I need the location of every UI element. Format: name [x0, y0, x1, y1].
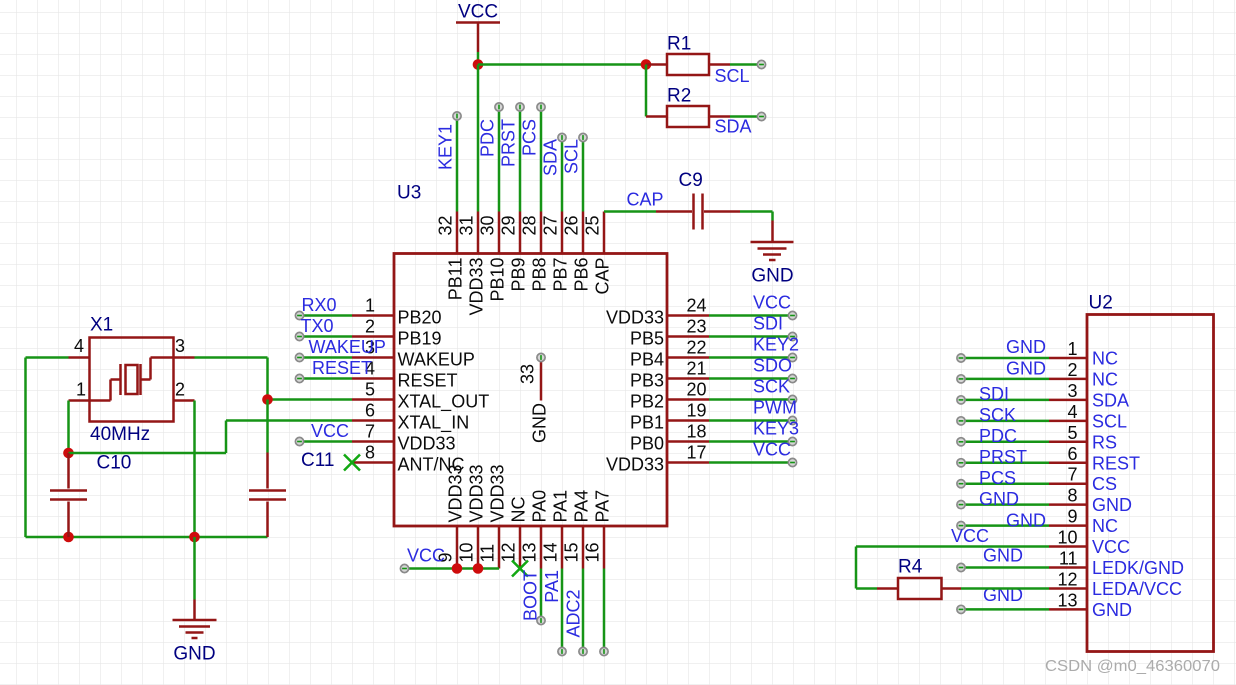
svg-text:15: 15 [562, 542, 582, 562]
pin endpoint KEY3 [788, 437, 796, 445]
junction at R1/R2 split [641, 59, 652, 70]
svg-text:SDA: SDA [715, 117, 752, 137]
svg-text:VDD33: VDD33 [398, 434, 456, 454]
svg-text:8: 8 [1067, 486, 1077, 506]
pin endpoint RESET [295, 374, 303, 382]
svg-text:R4: R4 [898, 557, 923, 578]
wire PA1 (pin14) [561, 569, 564, 652]
svg-text:3: 3 [1067, 381, 1077, 401]
ground symbol (left) [173, 600, 217, 665]
pin endpoint 33 [537, 353, 545, 361]
wire U2 pin 7 (PCS) [961, 482, 1049, 485]
wire R4 to U2 pin 12 [961, 587, 1049, 590]
svg-text:REST: REST [1092, 453, 1140, 473]
wire VCC [709, 461, 793, 464]
svg-text:PRST: PRST [979, 447, 1027, 467]
svg-text:RESET: RESET [398, 371, 458, 391]
pin endpoint BOOT [537, 616, 545, 624]
U2 pin 4 stub [1049, 420, 1087, 423]
svg-text:U2: U2 [1089, 293, 1113, 314]
svg-text:VCC: VCC [951, 526, 989, 546]
U3 right pin 17 stub [667, 461, 709, 464]
svg-text:VCC: VCC [1092, 537, 1130, 557]
svg-text:4: 4 [1067, 402, 1077, 422]
U3 top pin 26 stub [582, 212, 585, 254]
wire R1 to pin SCL [730, 63, 759, 66]
svg-text:TX0: TX0 [301, 316, 334, 336]
svg-text:2: 2 [175, 380, 185, 400]
pin endpoint U2 pin 13 [957, 605, 965, 613]
U2 pin 3 stub [1049, 399, 1087, 402]
U3 bottom pin 15 stub [582, 526, 585, 569]
svg-text:PB10: PB10 [488, 258, 508, 302]
wire U2 pin 9 (GND) [961, 524, 1049, 527]
svg-text:VCC: VCC [753, 440, 791, 460]
svg-text:2: 2 [1067, 360, 1077, 380]
svg-text:GND: GND [173, 644, 215, 665]
svg-text:GND: GND [1092, 600, 1132, 620]
op-amp U3 body [394, 254, 667, 527]
pin endpoint U2 pin 6 [957, 459, 965, 467]
pin endpoint U2 pin 2 [957, 375, 965, 383]
svg-text:22: 22 [687, 338, 707, 358]
svg-text:PB6: PB6 [572, 258, 592, 292]
wire U2 pin 13 (GND) [961, 608, 1049, 611]
svg-text:WAKEUP: WAKEUP [309, 337, 386, 357]
U3 top pin 28 stub [540, 212, 543, 254]
svg-text:19: 19 [687, 401, 707, 421]
U2 pin 6 stub [1049, 462, 1087, 465]
wire U2 pin 6 (PRST) [961, 462, 1049, 465]
pin endpoint SDO [788, 374, 796, 382]
U3 top pin 29 stub [519, 212, 522, 254]
wire U2 pin 5 (PDC) [961, 441, 1049, 444]
pin endpoint PCS [537, 103, 545, 111]
svg-text:XTAL_IN: XTAL_IN [398, 413, 470, 434]
U3 pin 5 stub [352, 398, 394, 401]
svg-text:VCC: VCC [407, 546, 445, 566]
svg-text:U3: U3 [397, 183, 421, 204]
pin endpoint ADC2 [579, 647, 587, 655]
wire X1 pin3 right [195, 356, 268, 359]
pin endpoint PDC [495, 103, 503, 111]
U3 pin 6 stub [352, 419, 394, 422]
svg-text:PB20: PB20 [398, 308, 442, 328]
svg-text:NC: NC [1092, 349, 1118, 369]
junction C10 top [63, 448, 74, 459]
U2 pin 10 stub [1049, 545, 1087, 548]
svg-text:PA4: PA4 [572, 490, 592, 523]
connector U2 body [1087, 315, 1214, 652]
svg-text:7: 7 [1067, 465, 1077, 485]
U2 pin 2 stub [1049, 378, 1087, 381]
svg-text:PA0: PA0 [530, 490, 550, 523]
wire VCC horizontal to R1 [478, 63, 646, 66]
wire SDO [709, 377, 793, 380]
svg-text:GND: GND [1006, 337, 1046, 357]
crystal X1 body [90, 338, 174, 422]
junction XTAL_OUT/C11 [262, 394, 273, 405]
svg-text:21: 21 [687, 359, 707, 379]
svg-text:SCK: SCK [979, 405, 1016, 425]
svg-text:40MHz: 40MHz [90, 424, 150, 445]
svg-text:31: 31 [457, 216, 477, 236]
svg-text:GND: GND [530, 403, 550, 443]
svg-text:PB19: PB19 [398, 329, 442, 349]
svg-text:PA7: PA7 [593, 490, 613, 523]
svg-text:BOOT: BOOT [521, 570, 541, 621]
svg-text:23: 23 [687, 317, 707, 337]
svg-text:PDC: PDC [478, 119, 498, 157]
wire BOOT (pin13) [540, 569, 543, 621]
capacitor C9 [656, 194, 740, 230]
U3 pin 4 stub [352, 377, 394, 380]
svg-text:16: 16 [583, 542, 603, 562]
U3 right pin 19 stub [667, 419, 709, 422]
wire GND drop [193, 537, 196, 600]
U2 pin 1 stub [1049, 357, 1087, 360]
svg-text:GND: GND [751, 266, 793, 287]
svg-text:GND: GND [979, 489, 1019, 509]
wire U2 pin 11 (GND) [961, 566, 1049, 569]
wire TX0 [300, 335, 353, 338]
U3 pin 3 stub [352, 356, 394, 359]
junction pin9 [452, 563, 463, 574]
svg-text:8: 8 [365, 443, 375, 463]
pin endpoint VCC [788, 311, 796, 319]
svg-text:14: 14 [541, 542, 561, 562]
wire KEY3 [709, 440, 793, 443]
U3 bottom pin 10 stub [477, 526, 480, 569]
pin endpoint VCC [788, 458, 796, 466]
svg-text:13: 13 [1057, 590, 1077, 610]
svg-text:C11: C11 [301, 450, 334, 471]
pin endpoint PA1 [558, 647, 566, 655]
U3 right pin 23 stub [667, 335, 709, 338]
wire X1 pin2 down [193, 401, 196, 538]
svg-text:NC: NC [1092, 369, 1118, 389]
pin endpoint U2 pin 3 [957, 396, 965, 404]
svg-text:PB3: PB3 [630, 371, 664, 391]
svg-text:RESET: RESET [312, 358, 372, 378]
svg-text:3: 3 [175, 336, 185, 356]
svg-text:VDD33: VDD33 [446, 464, 466, 522]
svg-text:30: 30 [478, 216, 498, 236]
pin endpoint U2 pin 1 [957, 354, 965, 362]
U3 top pin 27 stub [561, 212, 564, 254]
pin endpoint U2 pin 11 [957, 563, 965, 571]
pin endpoint RX0 [295, 311, 303, 319]
U3 right pin 21 stub [667, 377, 709, 380]
X1 pin 1 stub [69, 399, 90, 402]
wire X1 pin1 down [67, 401, 70, 454]
U3 right pin 24 stub [667, 314, 709, 317]
pin endpoint KEY2 [788, 353, 796, 361]
svg-text:PB5: PB5 [630, 329, 664, 349]
svg-text:RX0: RX0 [302, 295, 337, 315]
wire PRST [519, 107, 522, 212]
wire SCL top [582, 138, 585, 212]
U2 pin 11 stub [1049, 566, 1087, 569]
U3 top pin 31 stub [477, 212, 480, 254]
svg-text:33: 33 [518, 364, 538, 384]
pin endpoint SDA top [558, 133, 566, 141]
U2 pin 5 stub [1049, 441, 1087, 444]
svg-text:PB7: PB7 [551, 258, 571, 292]
pin endpoint TX0 [295, 332, 303, 340]
pin endpoint U2 pin 9 [957, 522, 965, 530]
junction VCC node [473, 59, 484, 70]
U3 pin 1 stub [352, 314, 394, 317]
svg-text:GND: GND [1006, 359, 1046, 379]
U3 right pin 22 stub [667, 356, 709, 359]
svg-text:5: 5 [1067, 423, 1077, 443]
U3 right pin 18 stub [667, 440, 709, 443]
svg-text:KEY2: KEY2 [753, 335, 799, 355]
U3 pin 8 stub [352, 461, 394, 464]
svg-text:PB0: PB0 [630, 434, 664, 454]
capacitor C10 [50, 453, 87, 537]
resistor R2 [646, 106, 730, 127]
svg-text:PB9: PB9 [509, 258, 529, 292]
svg-text:C10: C10 [97, 453, 132, 474]
U3 bottom pin 16 stub [603, 526, 606, 569]
svg-text:1: 1 [365, 296, 375, 316]
svg-text:26: 26 [562, 216, 582, 236]
svg-text:11: 11 [1059, 549, 1078, 569]
wire SCK [709, 398, 793, 401]
svg-text:RS: RS [1092, 432, 1117, 452]
svg-text:18: 18 [687, 422, 707, 442]
X1 pin 4 stub [69, 356, 90, 359]
svg-text:KEY1: KEY1 [436, 124, 456, 170]
pin endpoint SCK [788, 395, 796, 403]
svg-text:C9: C9 [679, 170, 703, 191]
svg-text:PCS: PCS [520, 119, 540, 156]
svg-text:KEY3: KEY3 [753, 419, 799, 439]
svg-text:32: 32 [436, 216, 456, 236]
resistor R1 [646, 54, 730, 75]
wire SDI [709, 335, 793, 338]
wire X1 pin4 left [26, 356, 69, 359]
svg-text:PA1: PA1 [542, 570, 562, 603]
svg-text:VDD33: VDD33 [488, 464, 508, 522]
svg-text:9: 9 [1067, 507, 1077, 527]
svg-text:11: 11 [478, 544, 498, 563]
svg-text:5: 5 [365, 380, 375, 400]
svg-text:X1: X1 [90, 315, 113, 336]
svg-text:CAP: CAP [627, 190, 664, 210]
pin endpoint U2 pin 5 [957, 438, 965, 446]
pin endpoint U2 pin 8 [957, 501, 965, 509]
svg-text:R2: R2 [667, 86, 691, 107]
U3 bottom pin 9 stub [456, 526, 459, 569]
svg-text:VDD33: VDD33 [467, 464, 487, 522]
svg-text:24: 24 [687, 296, 707, 316]
svg-text:VDD33: VDD33 [606, 455, 664, 475]
wire U2 pin 1 (GND) [961, 357, 1049, 360]
U3 pin 33 stub [540, 362, 543, 401]
U3 top pin 25 stub [603, 212, 606, 254]
wire KEY2 [709, 356, 793, 359]
svg-text:SDI: SDI [979, 384, 1009, 404]
svg-text:12: 12 [1057, 570, 1077, 590]
wire RESET [300, 377, 353, 380]
svg-text:28: 28 [520, 216, 540, 236]
svg-text:1: 1 [1067, 339, 1077, 359]
svg-text:4: 4 [74, 336, 84, 356]
wire U2 pin 3 (SDI) [961, 399, 1049, 402]
wire bottom horizontal [26, 536, 268, 539]
svg-text:SCL: SCL [715, 66, 750, 86]
svg-text:PB1: PB1 [630, 413, 664, 433]
pin endpoint pin16 [600, 647, 608, 655]
wire XTAL_IN [226, 419, 352, 422]
X1 pin 2 stub [174, 399, 195, 402]
svg-text:PCS: PCS [979, 468, 1016, 488]
pin endpoint SCL top [579, 133, 587, 141]
svg-text:SDA: SDA [1092, 390, 1129, 410]
wire R2 to pin SDA [730, 115, 759, 118]
svg-text:17: 17 [687, 443, 707, 463]
svg-text:VDD33: VDD33 [606, 308, 664, 328]
svg-text:VCC: VCC [753, 293, 791, 313]
svg-text:PRST: PRST [499, 119, 519, 167]
wire VCC vertical to junction [477, 52, 480, 65]
svg-text:2: 2 [365, 317, 375, 337]
svg-text:27: 27 [541, 216, 561, 236]
svg-text:25: 25 [583, 216, 603, 236]
wire VDD33 pin7 [300, 440, 353, 443]
U3 bottom pin 11 stub [498, 526, 501, 569]
junction GND node [189, 532, 200, 543]
svg-text:LEDK/GND: LEDK/GND [1092, 558, 1184, 578]
U3 bottom pin 13 stub [540, 526, 543, 569]
U3 pin 7 stub [352, 440, 394, 443]
svg-text:LEDA/VCC: LEDA/VCC [1092, 579, 1182, 599]
svg-text:PDC: PDC [979, 426, 1017, 446]
svg-text:SDO: SDO [753, 356, 792, 376]
svg-text:PA1: PA1 [551, 490, 571, 523]
wire junction down to C11 [266, 400, 269, 453]
svg-text:NC: NC [509, 497, 529, 523]
U3 bottom pin 14 stub [561, 526, 564, 569]
svg-text:GND: GND [1092, 495, 1132, 515]
svg-text:SDA: SDA [541, 139, 561, 176]
wire U2 pin 2 (GND) [961, 378, 1049, 381]
wire CAP net [604, 210, 656, 213]
U3 bottom pin 12 stub [519, 526, 522, 569]
svg-text:6: 6 [365, 401, 375, 421]
resistor R4 [877, 578, 961, 599]
capacitor C11 [249, 453, 286, 538]
wire XTAL_OUT [268, 398, 353, 401]
pin endpoint VCC bottom [400, 564, 408, 572]
pin endpoint U2 pin 7 [957, 480, 965, 488]
svg-text:CSDN @m0_46360070: CSDN @m0_46360070 [1045, 658, 1220, 675]
svg-text:29: 29 [499, 216, 519, 236]
U3 top pin 30 stub [498, 212, 501, 254]
svg-text:10: 10 [457, 542, 477, 562]
svg-text:20: 20 [687, 380, 707, 400]
U3 top pin 32 stub [456, 212, 459, 254]
svg-text:NC: NC [1092, 516, 1118, 536]
wire U2 pin 4 (SCK) [961, 420, 1049, 423]
svg-text:SCL: SCL [562, 139, 582, 174]
svg-text:SDI: SDI [753, 314, 783, 334]
svg-text:PWM: PWM [753, 398, 797, 418]
wire pin16 [603, 569, 606, 652]
svg-text:ADC2: ADC2 [564, 590, 584, 638]
wire PCS [540, 107, 543, 212]
pin endpoint SDA [757, 112, 765, 120]
svg-text:SCK: SCK [753, 377, 790, 397]
wire VCC [709, 314, 793, 317]
svg-text:VCC: VCC [458, 2, 498, 23]
U3 pin 2 stub [352, 335, 394, 338]
svg-text:SCL: SCL [1092, 411, 1127, 431]
wire VCC bottom [405, 567, 500, 570]
U2 pin 8 stub [1049, 503, 1087, 506]
svg-text:R1: R1 [667, 34, 691, 55]
pin endpoint PRST [516, 103, 524, 111]
U3 right pin 20 stub [667, 398, 709, 401]
junction C10 bottom [63, 532, 74, 543]
no-connect X on ANT/NC [344, 455, 360, 471]
wire WAKEUP [300, 356, 353, 359]
wire U2 pin 8 (GND) [961, 503, 1049, 506]
wire junction down to R2 [645, 65, 648, 117]
wire left vertical [24, 358, 27, 538]
wire PWM [709, 419, 793, 422]
crystal glyph [90, 358, 174, 401]
svg-text:PB2: PB2 [630, 392, 664, 412]
no-connect X pin 12 [512, 561, 528, 577]
wire C10 to XTAL_IN [69, 421, 227, 454]
svg-text:6: 6 [1067, 444, 1077, 464]
pin endpoint SCL [757, 60, 765, 68]
svg-text:PB8: PB8 [530, 258, 550, 292]
X1 pin 3 stub [174, 356, 195, 359]
svg-text:13: 13 [520, 542, 540, 562]
wire VCC to pin 31 [477, 65, 480, 212]
U2 pin 7 stub [1049, 482, 1087, 485]
wire pin3 down to XTAL_OUT [266, 358, 269, 400]
svg-text:XTAL_OUT: XTAL_OUT [398, 392, 490, 413]
wire VCC to U2 pin 10 [856, 547, 1049, 589]
svg-text:7: 7 [365, 422, 375, 442]
U2 pin 9 stub [1049, 524, 1087, 527]
junction pin10 [473, 563, 484, 574]
pin endpoint SDI [788, 332, 796, 340]
svg-text:10: 10 [1057, 528, 1077, 548]
svg-text:VDD33: VDD33 [467, 258, 487, 316]
svg-text:WAKEUP: WAKEUP [398, 350, 475, 370]
svg-text:12: 12 [499, 542, 519, 562]
svg-text:PB4: PB4 [630, 350, 664, 370]
wire PDC [498, 107, 501, 212]
pin endpoint KEY1 [453, 112, 461, 120]
wire KEY1 [456, 116, 459, 212]
svg-text:1: 1 [76, 380, 86, 400]
pin endpoint VCC pin7 [295, 437, 303, 445]
pin endpoint PWM [788, 416, 796, 424]
power flag VCC [456, 2, 500, 53]
svg-text:CAP: CAP [593, 258, 613, 295]
svg-text:PB11: PB11 [446, 258, 466, 301]
svg-text:CS: CS [1092, 474, 1117, 494]
svg-text:GND: GND [983, 546, 1023, 566]
